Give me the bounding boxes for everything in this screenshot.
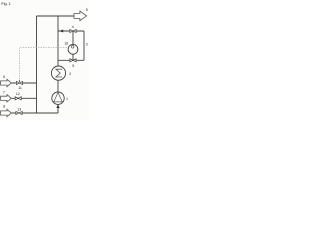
wire light control line	[20, 48, 69, 82]
svg-text:2: 2	[69, 72, 71, 76]
wire L2 inlet line	[10, 97, 37, 99]
svg-text:7: 7	[3, 91, 5, 95]
valve 11 stem	[19, 80, 21, 82]
svg-text:11: 11	[18, 86, 22, 90]
valve 4	[70, 29, 76, 32]
pump 1 impeller triangle	[54, 93, 63, 102]
inlet arrow 6	[1, 79, 12, 86]
heat exchanger sigma	[56, 69, 62, 77]
flow arrow up below pump 1	[56, 105, 59, 109]
svg-text:12: 12	[16, 92, 20, 96]
svg-text:5: 5	[72, 64, 74, 68]
svg-text:6: 6	[3, 75, 5, 79]
wire valve5 horizontal	[58, 59, 84, 61]
wire bottom horizontal	[10, 112, 58, 114]
wire left vertical V1	[36, 16, 38, 113]
pump 10 circle	[68, 44, 78, 54]
valve 5	[70, 59, 76, 62]
svg-text:Fig. 1: Fig. 1	[1, 2, 11, 6]
pump 1 circle	[52, 92, 64, 104]
valve 11	[16, 81, 22, 84]
svg-text:10: 10	[64, 42, 68, 46]
flow arrow left on branch	[59, 30, 63, 33]
svg-text:13: 13	[17, 108, 21, 112]
wire top horizontal	[37, 15, 75, 17]
svg-text:4: 4	[72, 25, 74, 29]
valve 13	[16, 111, 22, 114]
pump 10 impeller circle	[71, 46, 74, 49]
valve 12	[15, 97, 21, 100]
wire branch at y=31	[58, 30, 84, 32]
wire V2 below pump 1 to bottom corner	[57, 104, 59, 113]
svg-text:3: 3	[86, 43, 88, 47]
wire right vertical 3	[83, 31, 85, 60]
wire V2 upper segment	[57, 16, 59, 66]
inlet arrow 7	[1, 95, 12, 102]
svg-text:1: 1	[66, 97, 68, 101]
svg-text:9: 9	[86, 8, 88, 12]
wire V2 between HX and pump 1	[57, 80, 59, 92]
heat exchanger 2 circle	[51, 66, 65, 80]
svg-text:8: 8	[3, 105, 5, 109]
wire L1 inlet line	[10, 82, 37, 84]
inlet arrow 8	[1, 109, 12, 116]
outlet arrow 9	[74, 11, 87, 21]
wire pump10 riser	[72, 31, 74, 60]
